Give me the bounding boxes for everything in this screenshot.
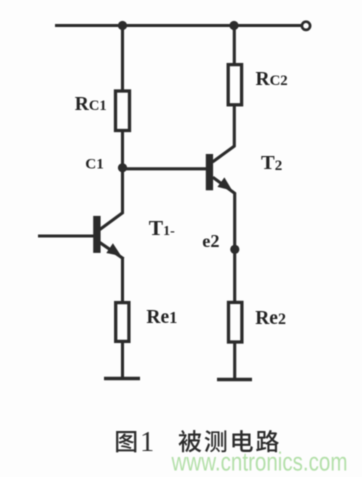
wire T2 emitter to Re2	[233, 193, 236, 303]
svg-text:Re1: Re1	[146, 307, 177, 328]
node junction at RC2 top	[229, 21, 238, 30]
svg-text:RC2: RC2	[256, 69, 288, 90]
wire RC1 bottom to T1 collector	[121, 132, 124, 214]
wire RC2 bottom to T2 collector	[233, 106, 236, 147]
caption char bei (被)	[179, 430, 202, 452]
caption char lu (路)	[256, 430, 279, 452]
svg-text:Re2: Re2	[255, 308, 286, 329]
transistor T1 base bar	[93, 216, 100, 253]
transistor T2 emitter arrow	[217, 177, 232, 190]
caption char tu (图)	[116, 431, 136, 452]
node C1 junction dot	[118, 163, 127, 172]
wire Re1 bottom to ground	[121, 343, 124, 379]
svg-text:1: 1	[140, 427, 154, 458]
caption char ce (测)	[205, 430, 227, 452]
caption char dian (电)	[232, 430, 252, 452]
svg-text:RC1: RC1	[75, 94, 107, 115]
resistor Re1 body	[116, 303, 129, 342]
node junction at RC1 top	[118, 21, 127, 30]
svg-text:C1: C1	[85, 155, 104, 172]
wire RC1 top lead	[121, 26, 124, 91]
wire T1 emitter diagonal	[100, 242, 124, 258]
resistor RC2 body	[228, 65, 241, 105]
svg-text:e2: e2	[202, 231, 219, 251]
wire T2 emitter diagonal	[213, 177, 235, 193]
transistor T1 emitter arrow	[106, 243, 121, 256]
svg-text:T2: T2	[261, 152, 282, 174]
node e2 junction dot	[230, 245, 239, 254]
resistor Re2 body	[229, 302, 242, 342]
ground symbol right	[217, 378, 252, 382]
wire top supply bus	[55, 24, 302, 27]
wire Re2 bottom to ground	[233, 343, 236, 379]
wire node C1 to T2 base	[123, 167, 207, 170]
resistor RC1 body	[116, 91, 130, 131]
svg-text:www.cntronics.com: www.cntronics.com	[171, 447, 348, 477]
transistor T2 base bar	[206, 154, 213, 190]
terminal open circle output	[302, 22, 310, 30]
wire RC2 top lead	[233, 26, 236, 65]
wire T1 collector diagonal	[100, 212, 124, 230]
wire T1 emitter to Re1	[121, 258, 124, 303]
svg-text:T1-: T1-	[149, 216, 175, 240]
ground symbol left	[104, 377, 140, 381]
wire T1 base lead	[38, 234, 94, 237]
wire T2 collector diagonal	[213, 146, 235, 162]
